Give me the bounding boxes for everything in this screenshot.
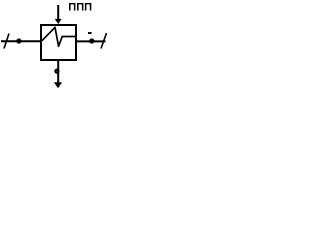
svg-text:ППП: ППП (68, 2, 92, 14)
